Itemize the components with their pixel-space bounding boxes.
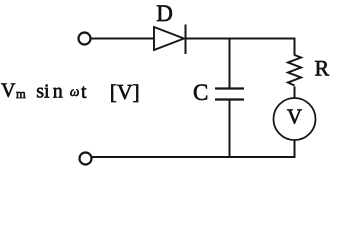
wire (diode cathode to top-right corner) <box>186 38 296 40</box>
wire (top-right corner down to resistor) <box>294 38 296 56</box>
wire (voltmeter to bottom wire) <box>294 140 296 158</box>
capacitor C <box>215 89 244 100</box>
voltmeter V <box>274 98 316 140</box>
terminal T1 (top-left input) <box>79 33 91 45</box>
diode D <box>154 25 186 55</box>
svg-text:V: V <box>287 105 302 129</box>
wire (bottom return wire) <box>92 156 295 158</box>
resistor R <box>288 55 301 86</box>
svg-text:[V]: [V] <box>110 80 140 104</box>
svg-text:i: i <box>44 81 50 103</box>
wire (resistor to voltmeter) <box>294 87 296 99</box>
svg-text:ω: ω <box>70 84 80 99</box>
wire (capacitor branch, bottom segment) <box>229 100 231 158</box>
svg-text:m: m <box>16 87 26 101</box>
svg-text:C: C <box>193 80 208 105</box>
svg-text:V: V <box>1 80 16 102</box>
terminal T2 (bottom-left input) <box>80 153 92 165</box>
svg-text:n: n <box>53 81 63 103</box>
source value label Vm sin wt [V] <box>1 80 140 104</box>
wire (top-left terminal to diode anode) <box>92 38 155 40</box>
svg-text:D: D <box>156 1 173 26</box>
svg-text:R: R <box>315 56 330 81</box>
svg-text:t: t <box>81 81 87 103</box>
wire (capacitor branch, top segment) <box>229 39 231 89</box>
